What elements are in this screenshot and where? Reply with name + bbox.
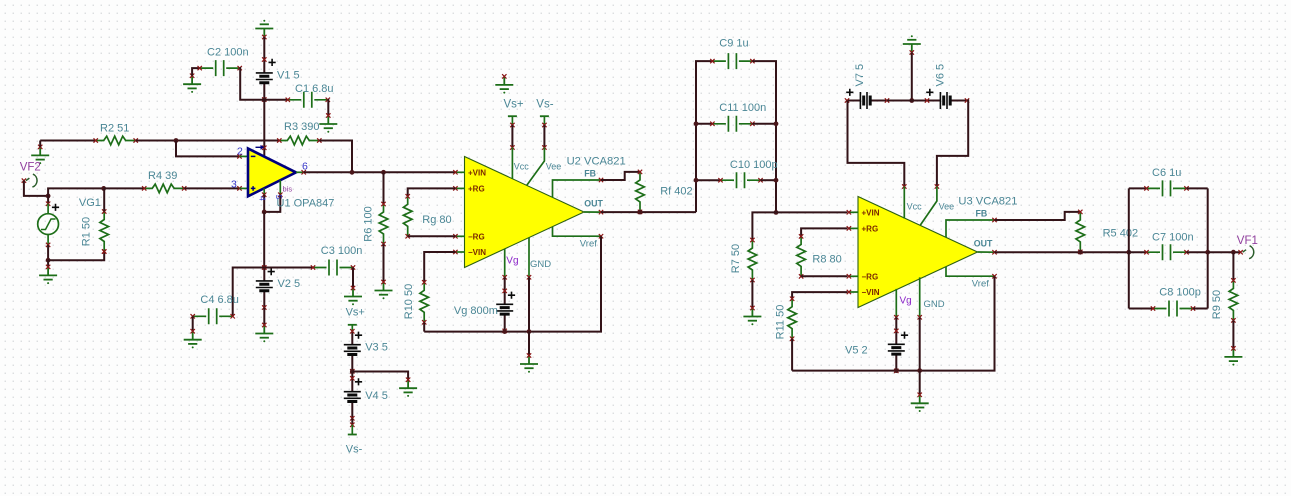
- svg-text:R6 100: R6 100: [363, 206, 375, 241]
- resistor R5: [1076, 212, 1085, 252]
- resistor R4: [144, 184, 184, 193]
- U2 FB pin: [553, 180, 602, 197]
- svg-text:C1 6.8u: C1 6.8u: [295, 83, 334, 95]
- U1 minus sign: [251, 155, 256, 157]
- svg-text:VF2: VF2: [20, 162, 41, 174]
- battery V7: [847, 100, 887, 102]
- wire R1 top: [103, 188, 105, 211]
- junction GND on rail: [527, 329, 532, 334]
- svg-text:C4 6.8u: C4 6.8u: [200, 294, 239, 306]
- svg-text:Vcc: Vcc: [514, 162, 530, 172]
- node junction R2/R3/pin2: [174, 138, 179, 143]
- resistor Rg: [403, 196, 412, 236]
- svg-text:R10 50: R10 50: [403, 284, 415, 319]
- junction right rail C11: [774, 121, 779, 126]
- voltage source VG1: [47, 196, 49, 204]
- svg-text:U3 VCA821: U3 VCA821: [958, 196, 1017, 208]
- U3 Vcc stub: [903, 187, 905, 219]
- capacitor C7: [1147, 244, 1187, 260]
- resistor R2: [96, 136, 136, 145]
- U3 GND pin: [919, 277, 921, 317]
- junction V5 minus on rail: [894, 368, 899, 373]
- wire U3 OUT to output bank: [995, 251, 1129, 253]
- wire U1 output row to U2 +VIN: [304, 171, 456, 173]
- junction between V3 and V4: [350, 369, 355, 374]
- junction R3 on out row: [350, 170, 355, 175]
- wire C2 left: [192, 68, 200, 76]
- ground below V2: [255, 325, 273, 338]
- capacitor C3 plates: [313, 260, 353, 276]
- wire left rail up to C9: [696, 61, 712, 212]
- junction U1 negative supply: [262, 210, 267, 215]
- resistor R10: [420, 282, 429, 322]
- svg-text:R5 402: R5 402: [1103, 227, 1138, 239]
- svg-text:bis: bis: [283, 185, 293, 194]
- wire mid to V6: [912, 100, 927, 102]
- wire C8 right: [1193, 308, 1208, 310]
- U3 pin stub +RG: [849, 227, 859, 229]
- wire rail to ground: [528, 332, 530, 356]
- capacitor C6: [1147, 180, 1187, 196]
- wire into C8: [1129, 308, 1153, 310]
- svg-text:Vee: Vee: [546, 162, 562, 172]
- svg-text:R4 39: R4 39: [148, 170, 177, 182]
- svg-text:OUT: OUT: [974, 239, 993, 249]
- battery V2: [263, 268, 265, 308]
- pin 2 stub: [240, 155, 249, 157]
- junction output bank left: [1126, 250, 1131, 255]
- U1 pin 6 stub: [296, 171, 304, 173]
- wire to VF1: [1208, 251, 1241, 253]
- wire U2 OUT to cap bank: [601, 211, 696, 213]
- svg-text:C11 100n: C11 100n: [719, 102, 766, 114]
- svg-text:4: 4: [258, 196, 268, 201]
- wire R7 to ground: [751, 280, 753, 308]
- svg-text:V2 5: V2 5: [278, 278, 301, 290]
- svg-text:VG1: VG1: [79, 197, 101, 209]
- wire FB to Rf top: [601, 172, 640, 180]
- junction left rail C10: [694, 178, 699, 183]
- capacitor C8: [1153, 301, 1193, 317]
- svg-text:R2 51: R2 51: [100, 122, 129, 134]
- wire Vs- to Vee pin: [543, 125, 545, 148]
- wire -VIN to R10: [424, 252, 455, 282]
- capacitor C4 plates: [193, 308, 233, 324]
- svg-text:FB: FB: [976, 209, 988, 219]
- junction R9 top: [1231, 250, 1236, 255]
- terminal Vs+ to U2 Vcc: [508, 115, 517, 117]
- svg-text:+RG: +RG: [468, 185, 485, 194]
- junction left rail C11: [694, 121, 699, 126]
- U3 Vref pin: [946, 267, 995, 277]
- wire to mid ground: [352, 372, 408, 380]
- svg-text:C10 100p: C10 100p: [730, 159, 778, 171]
- wire to U1 pin2: [176, 141, 240, 157]
- capacitor C2 plates: [200, 60, 240, 76]
- svg-text:V5 2: V5 2: [845, 344, 868, 356]
- ground below C1: [319, 116, 337, 129]
- svg-text:2: 2: [237, 146, 243, 158]
- svg-text:−VIN: −VIN: [862, 288, 880, 297]
- ground above U3 supplies: [903, 40, 921, 53]
- op-amp U2 VCA821 triangle: [465, 157, 585, 268]
- svg-text:R9 50: R9 50: [1211, 290, 1223, 319]
- ground at R2 left: [31, 147, 49, 160]
- wire -VIN to R11: [792, 292, 847, 299]
- wire to ground: [47, 260, 49, 267]
- wire into R2: [40, 140, 95, 142]
- battery V4: [351, 378, 353, 418]
- svg-text:C7 100n: C7 100n: [1152, 231, 1194, 243]
- svg-text:C8 100p: C8 100p: [1159, 287, 1201, 299]
- wire V7 plus to U3 Vcc: [848, 101, 905, 187]
- svg-text:Rf 402: Rf 402: [660, 185, 692, 197]
- wire into C11: [696, 123, 712, 125]
- wire R2 to R3 row: [136, 140, 280, 142]
- wire R9 to ground: [1232, 320, 1234, 348]
- wire ground to supply rail: [911, 53, 913, 101]
- svg-text:U1 OPA847: U1 OPA847: [277, 198, 335, 210]
- wire Vg pin to Vg source: [504, 277, 506, 291]
- wire R11 to bottom rail: [791, 339, 793, 371]
- wire into C1: [264, 99, 288, 101]
- wire to U3 +VIN: [776, 211, 848, 213]
- U2 GND pin: [528, 237, 530, 277]
- wire Vref down and U3 bottom rail: [792, 276, 994, 370]
- svg-text:GND: GND: [530, 259, 551, 270]
- svg-text:+RG: +RG: [862, 225, 879, 234]
- ground below R7: [743, 308, 761, 321]
- resistor R11: [788, 299, 797, 339]
- U1 pin 4 stub: [263, 188, 265, 194]
- ground above V1: [255, 24, 273, 37]
- resistor Rf: [636, 172, 645, 212]
- wire C4 left down: [192, 316, 194, 331]
- U1 plus sign: [251, 186, 256, 191]
- svg-text:Vg: Vg: [900, 296, 912, 307]
- wire C1 right down: [327, 100, 330, 116]
- wire node to R4 row: [48, 188, 104, 196]
- ground below VG1: [39, 267, 57, 280]
- wire V4 to Vs- terminal: [351, 418, 353, 425]
- svg-text:R11 50: R11 50: [775, 305, 787, 340]
- wire into C7: [1129, 251, 1147, 253]
- resistor R6: [379, 204, 388, 244]
- U3 pin stub +VIN: [849, 211, 859, 213]
- wire into C3: [264, 267, 313, 269]
- U2 pin stub -RG: [455, 235, 465, 237]
- wire ground to V1: [263, 37, 265, 60]
- svg-text:Vs-: Vs-: [346, 443, 363, 455]
- U3 Vg pin: [895, 289, 897, 317]
- U2 Vcc stub: [511, 148, 513, 180]
- svg-text:+VIN: +VIN: [862, 209, 880, 218]
- junction R1 top: [101, 186, 106, 191]
- wire R6 top lead: [383, 172, 385, 204]
- wire C9 right down right rail: [752, 61, 776, 212]
- battery Vg 800m: [504, 291, 506, 331]
- wire C11 right: [752, 123, 776, 125]
- junction V2 node: [262, 265, 267, 270]
- op-amp U3 VCA821 triangle: [858, 197, 978, 308]
- U2 OUT pin: [584, 211, 601, 213]
- svg-text:Vs+: Vs+: [504, 99, 524, 111]
- wire V6 minus to U3 Vee: [937, 101, 968, 187]
- battery V1: [263, 60, 265, 100]
- wire Vs+ to Vcc pin: [511, 125, 513, 148]
- wire V1 down to U1 pin7 crossing R3 row: [263, 100, 265, 157]
- U2 Vee stub diagonal: [527, 148, 545, 186]
- wire R2-left to ground: [39, 141, 41, 147]
- U3 FB pin: [946, 220, 995, 237]
- junction right rail bottom: [774, 210, 779, 215]
- wire rail to ground: [919, 371, 921, 395]
- U2 pin stub +RG: [455, 187, 465, 189]
- U1 pin 5 stub: [279, 180, 281, 194]
- ground left of C2: [183, 76, 201, 89]
- terminal Vs- of V4: [348, 434, 357, 436]
- ground right of V3/V4: [399, 380, 417, 393]
- svg-text:R3 390: R3 390: [284, 121, 319, 133]
- wire V7 to mid: [887, 100, 912, 102]
- U2 pin stub -VIN: [455, 251, 465, 253]
- wire C2 right to V1 node: [240, 68, 265, 100]
- svg-text:C9 1u: C9 1u: [719, 38, 748, 50]
- wire V2 to ground: [263, 308, 265, 326]
- U2 pin stub +VIN: [455, 171, 465, 173]
- svg-text:Vee: Vee: [939, 202, 955, 212]
- svg-text:−RG: −RG: [862, 273, 879, 282]
- junction V1 minus node: [262, 97, 267, 102]
- pin 3 stub: [240, 187, 249, 189]
- svg-text:Vref: Vref: [972, 278, 989, 289]
- battery V3: [351, 331, 353, 371]
- svg-text:R1 50: R1 50: [80, 217, 92, 246]
- svg-text:C6 1u: C6 1u: [1152, 167, 1181, 179]
- floating ground reference above Vs+: [495, 76, 513, 89]
- capacitor C10: [721, 172, 761, 188]
- junction Rf bottom on OUT: [638, 210, 643, 215]
- wire +RG to Rg: [408, 188, 456, 196]
- svg-text:GND: GND: [924, 299, 945, 310]
- wire into C6: [1129, 187, 1147, 189]
- wire VG1 bottom to R1 bottom: [48, 252, 104, 261]
- svg-text:−VIN: −VIN: [468, 248, 486, 257]
- junction R5 bottom on OUT: [1078, 250, 1083, 255]
- wire V2 node to C4: [233, 268, 265, 317]
- ground below C4: [184, 331, 202, 344]
- svg-text:Vcc: Vcc: [907, 202, 923, 212]
- svg-text:Vs+: Vs+: [346, 306, 365, 318]
- U3 pin stub -RG: [849, 275, 859, 277]
- wire C7 right: [1187, 251, 1208, 253]
- wire into R9: [1232, 252, 1234, 280]
- U3 Vee stub diagonal: [920, 187, 937, 226]
- junction R6 top: [381, 170, 386, 175]
- battery V6: [927, 100, 967, 102]
- wire Vg pin to V5: [895, 317, 897, 331]
- junction VG1 bottom: [46, 258, 51, 263]
- battery V5: [895, 331, 897, 371]
- resistor R8: [797, 236, 806, 276]
- svg-text:R7 50: R7 50: [730, 244, 742, 273]
- svg-text:V3 5: V3 5: [365, 341, 388, 353]
- capacitor C11: [712, 116, 752, 132]
- svg-text:Vs-: Vs-: [536, 99, 553, 111]
- wire C3 right down: [352, 268, 354, 289]
- U3 pin stub -VIN: [849, 291, 859, 293]
- capacitor C9: [712, 53, 752, 69]
- op-amp U1 OPA847 triangle: [248, 149, 296, 197]
- wire into R4: [104, 187, 145, 189]
- ground below C3: [344, 288, 362, 301]
- junction supply mid: [909, 98, 914, 103]
- resistor R7: [748, 240, 757, 280]
- junction U3 GND on rail: [917, 368, 922, 373]
- terminal Vs+ of V3: [348, 324, 357, 326]
- resistor R1: [102, 249, 106, 253]
- resistor R3: [279, 136, 319, 145]
- junction VG1 top node: [46, 194, 51, 199]
- wire R4 to U1 pin3: [184, 187, 239, 189]
- wire R6 to ground: [383, 244, 385, 282]
- svg-text:Vg 800m: Vg 800m: [454, 305, 498, 317]
- wire R10 to bottom rail: [423, 322, 425, 331]
- ground below U3: [911, 395, 929, 408]
- wire R3 right to output row: [319, 141, 352, 173]
- small arrow at U1 pin 7: [256, 146, 262, 148]
- U3 OUT pin: [978, 251, 995, 253]
- wire U1 V- down to V2 node: [263, 212, 265, 268]
- svg-text:OUT: OUT: [584, 199, 603, 209]
- ground below U2: [520, 356, 538, 369]
- capacitor C1 plates: [288, 92, 328, 108]
- wire V3 to V4: [351, 372, 353, 379]
- svg-text:V6 5: V6 5: [934, 64, 946, 87]
- svg-text:R8 80: R8 80: [812, 253, 841, 265]
- svg-text:3: 3: [231, 178, 237, 190]
- svg-text:V4 5: V4 5: [365, 390, 388, 402]
- left rail: [1128, 188, 1130, 308]
- svg-text:−RG: −RG: [468, 233, 485, 242]
- wire FB to R5 top: [995, 212, 1081, 220]
- wire into C10: [696, 179, 721, 181]
- ground below R9: [1224, 348, 1242, 361]
- wire +RG to R8: [801, 228, 847, 236]
- wire U3 GND pin to rail: [919, 317, 921, 370]
- svg-text:Vref: Vref: [580, 238, 597, 249]
- wire R8 to -RG: [801, 275, 847, 277]
- wire Vref down and bottom rail: [424, 236, 601, 331]
- U2 Vg pin: [504, 249, 506, 277]
- junction right rail C10: [774, 178, 779, 183]
- wire C6 right: [1187, 187, 1208, 189]
- terminal Vs- to U2 Vee: [540, 115, 549, 117]
- junction Vg minus on rail: [502, 329, 507, 334]
- wire C10 right: [761, 179, 777, 181]
- wire Rg to -RG: [408, 235, 456, 237]
- svg-text:V7 5: V7 5: [854, 64, 866, 87]
- junction output bank right: [1205, 250, 1210, 255]
- wire GND pin to rail: [528, 277, 530, 331]
- svg-text:C3 100n: C3 100n: [321, 245, 363, 257]
- svg-text:C2 100n: C2 100n: [207, 47, 249, 59]
- svg-text:VF1: VF1: [1237, 235, 1258, 247]
- svg-text:U2 VCA821: U2 VCA821: [567, 156, 626, 168]
- U2 Vref pin: [553, 227, 602, 237]
- ground below R6: [375, 282, 393, 295]
- svg-text:Rg 80: Rg 80: [422, 214, 451, 226]
- svg-text:V1 5: V1 5: [277, 70, 300, 82]
- svg-text:Vg: Vg: [506, 256, 518, 267]
- svg-text:FB: FB: [584, 169, 596, 179]
- wire to R7: [752, 212, 776, 240]
- resistor R9: [1229, 280, 1238, 320]
- right rail: [1207, 188, 1209, 308]
- svg-text:+VIN: +VIN: [468, 169, 486, 178]
- wire VF2 to node: [24, 181, 48, 196]
